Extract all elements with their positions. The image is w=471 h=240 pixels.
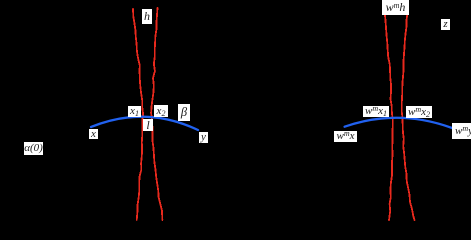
label y — [199, 132, 208, 143]
label w^m x — [334, 131, 357, 142]
label h — [142, 9, 152, 24]
label x1 — [128, 106, 141, 117]
label x — [89, 129, 98, 139]
label w^m x1 — [363, 106, 389, 117]
label w^m h — [382, 0, 409, 15]
translated geodesic w^m h left boundary curve — [385, 15, 393, 220]
label l — [143, 119, 153, 131]
label w^m x2 — [406, 106, 432, 118]
geodesic h right boundary curve — [151, 8, 162, 220]
label beta — [178, 104, 190, 121]
label alpha(0) — [24, 142, 43, 155]
label w^m y — [452, 123, 471, 139]
blue geodesic from x to y — [91, 117, 198, 130]
label x2 — [154, 105, 168, 117]
blue geodesic from w^m x to w^m y — [345, 118, 452, 128]
label z — [441, 19, 450, 30]
geodesic h left boundary curve — [133, 9, 143, 220]
translated geodesic w^m h right boundary curve — [402, 13, 415, 220]
